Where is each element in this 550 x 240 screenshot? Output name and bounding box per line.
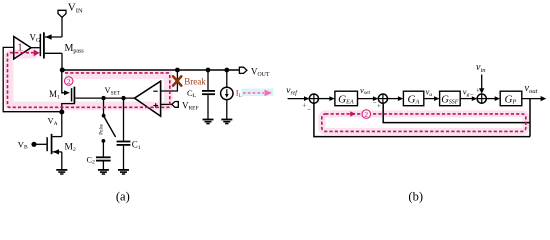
wire: GEA to S2 xyxy=(358,98,375,100)
port VIN xyxy=(58,10,66,17)
loop 2 halo over buffer xyxy=(15,50,37,59)
label circled 2 (circuit a) xyxy=(64,77,73,86)
summing junction S3 xyxy=(477,94,486,103)
node VA xyxy=(59,110,64,115)
ground (CL) xyxy=(203,120,214,124)
wire: outer feedback to S1 xyxy=(314,103,530,136)
block GP xyxy=(500,91,522,106)
loop 2 pink halo (circuit a) xyxy=(9,54,168,106)
label plus input xyxy=(153,105,158,107)
capacitor C1 xyxy=(117,98,131,169)
op-amp EA xyxy=(135,81,161,116)
wire: vout feedback tap xyxy=(529,99,531,137)
svg-text:1: 1 xyxy=(17,42,23,54)
block GSSF xyxy=(440,91,461,106)
wire: inner feedback to S2 xyxy=(383,103,530,122)
current source IL xyxy=(221,70,233,119)
buffer U1 (unity gain) xyxy=(14,37,31,60)
svg-text:(b): (b) xyxy=(408,189,423,203)
transistor Mpass xyxy=(40,32,62,70)
node: IL tap xyxy=(224,68,229,73)
switch S1 (Pulse) xyxy=(102,98,116,156)
svg-text:Break: Break xyxy=(184,76,206,86)
loop 2 arrowhead (diagram b) xyxy=(350,111,355,116)
wire: vref input xyxy=(288,98,307,100)
node: CL tap xyxy=(206,68,211,73)
capacitor C2 xyxy=(96,156,111,169)
transistor M2 xyxy=(36,112,62,170)
ground (IL) xyxy=(221,120,232,124)
loop 2 dashed rect (diagram b) xyxy=(322,114,526,131)
ground (C2) xyxy=(98,170,109,174)
label minus input xyxy=(153,90,157,92)
wire: Vin port to Mpass source xyxy=(61,17,63,37)
wire: S2 to GA xyxy=(388,98,401,100)
wire: buffer output to Mpass gate xyxy=(31,47,40,49)
svg-text:(a): (a) xyxy=(116,189,130,203)
wire: S3 to GP xyxy=(486,98,497,100)
node VSET-switch xyxy=(101,96,105,100)
wire: buffer input from node VA xyxy=(3,47,62,111)
wire: GSSF to S3 xyxy=(460,98,473,100)
loop 2 halo over op-amp xyxy=(141,102,167,111)
wire: S1 to GEA xyxy=(319,98,332,100)
ground (M2) xyxy=(56,170,67,174)
port VREF xyxy=(172,102,178,108)
node: EA feedback tap xyxy=(175,68,180,73)
loop 2 pink halo (diagram b) xyxy=(322,114,526,131)
svg-text:2: 2 xyxy=(364,110,368,119)
wire: GA to GSSF xyxy=(424,98,436,100)
block GEA xyxy=(335,91,358,106)
svg-text:+: + xyxy=(377,103,381,110)
loop 2 dashed path (circuit a) xyxy=(8,53,170,108)
wire: output vout xyxy=(522,98,542,100)
transistor M1 xyxy=(62,70,135,112)
wire: EA inverting input from VOUT xyxy=(161,70,178,91)
capacitor CL xyxy=(202,70,215,119)
wire: output rail xyxy=(62,69,240,71)
loop 2 arrowhead xyxy=(34,50,40,57)
port VOUT xyxy=(239,67,247,73)
node: Mpass drain xyxy=(60,68,65,73)
block GA xyxy=(403,91,423,106)
svg-text:2: 2 xyxy=(67,77,71,86)
label circled 2 (diagram b) xyxy=(362,110,371,119)
summing junction S1 xyxy=(309,94,318,103)
ground (C1) xyxy=(118,170,129,174)
svg-text:−: − xyxy=(307,107,311,114)
svg-text:+: + xyxy=(302,102,306,109)
wire: EA non-inverting input xyxy=(161,103,172,105)
node VSET-C1 xyxy=(121,96,125,100)
summing junction S2 xyxy=(378,94,387,103)
terminal VB xyxy=(31,142,36,147)
wire: vin arrow into S3 xyxy=(481,75,483,91)
svg-text:Pulse: Pulse xyxy=(100,123,105,135)
load step dashed arrow xyxy=(243,92,264,94)
break X mark xyxy=(173,76,181,85)
load step highlight band xyxy=(242,89,274,97)
